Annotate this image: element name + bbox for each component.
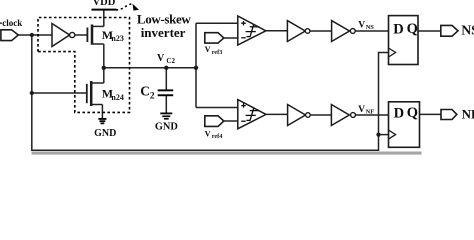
svg-text:D: D bbox=[393, 21, 403, 37]
svg-text:Q: Q bbox=[407, 21, 418, 37]
svg-text:ref4: ref4 bbox=[212, 133, 223, 140]
svg-text:clock: clock bbox=[2, 18, 22, 28]
svg-text:NF: NF bbox=[462, 107, 474, 122]
svg-text:V: V bbox=[205, 130, 211, 139]
svg-text:C2: C2 bbox=[166, 57, 175, 65]
svg-text:GND: GND bbox=[155, 122, 178, 133]
svg-text:GND: GND bbox=[94, 128, 116, 139]
svg-text:V: V bbox=[358, 20, 365, 30]
svg-text:n24: n24 bbox=[111, 93, 123, 102]
svg-text:inverter: inverter bbox=[141, 25, 186, 40]
svg-text:V: V bbox=[157, 53, 165, 64]
svg-text:C: C bbox=[140, 83, 150, 98]
svg-text:NF: NF bbox=[366, 109, 375, 116]
svg-text:VDD: VDD bbox=[93, 0, 116, 8]
svg-text:V: V bbox=[205, 45, 211, 54]
svg-text:Q: Q bbox=[407, 105, 418, 121]
svg-text:NS: NS bbox=[461, 23, 474, 38]
svg-text:ref3: ref3 bbox=[212, 49, 223, 56]
svg-text:2: 2 bbox=[150, 92, 155, 102]
svg-text:V: V bbox=[358, 105, 365, 115]
svg-text:n23: n23 bbox=[111, 34, 123, 43]
svg-text:D: D bbox=[394, 105, 404, 121]
svg-text:NS: NS bbox=[366, 24, 375, 31]
